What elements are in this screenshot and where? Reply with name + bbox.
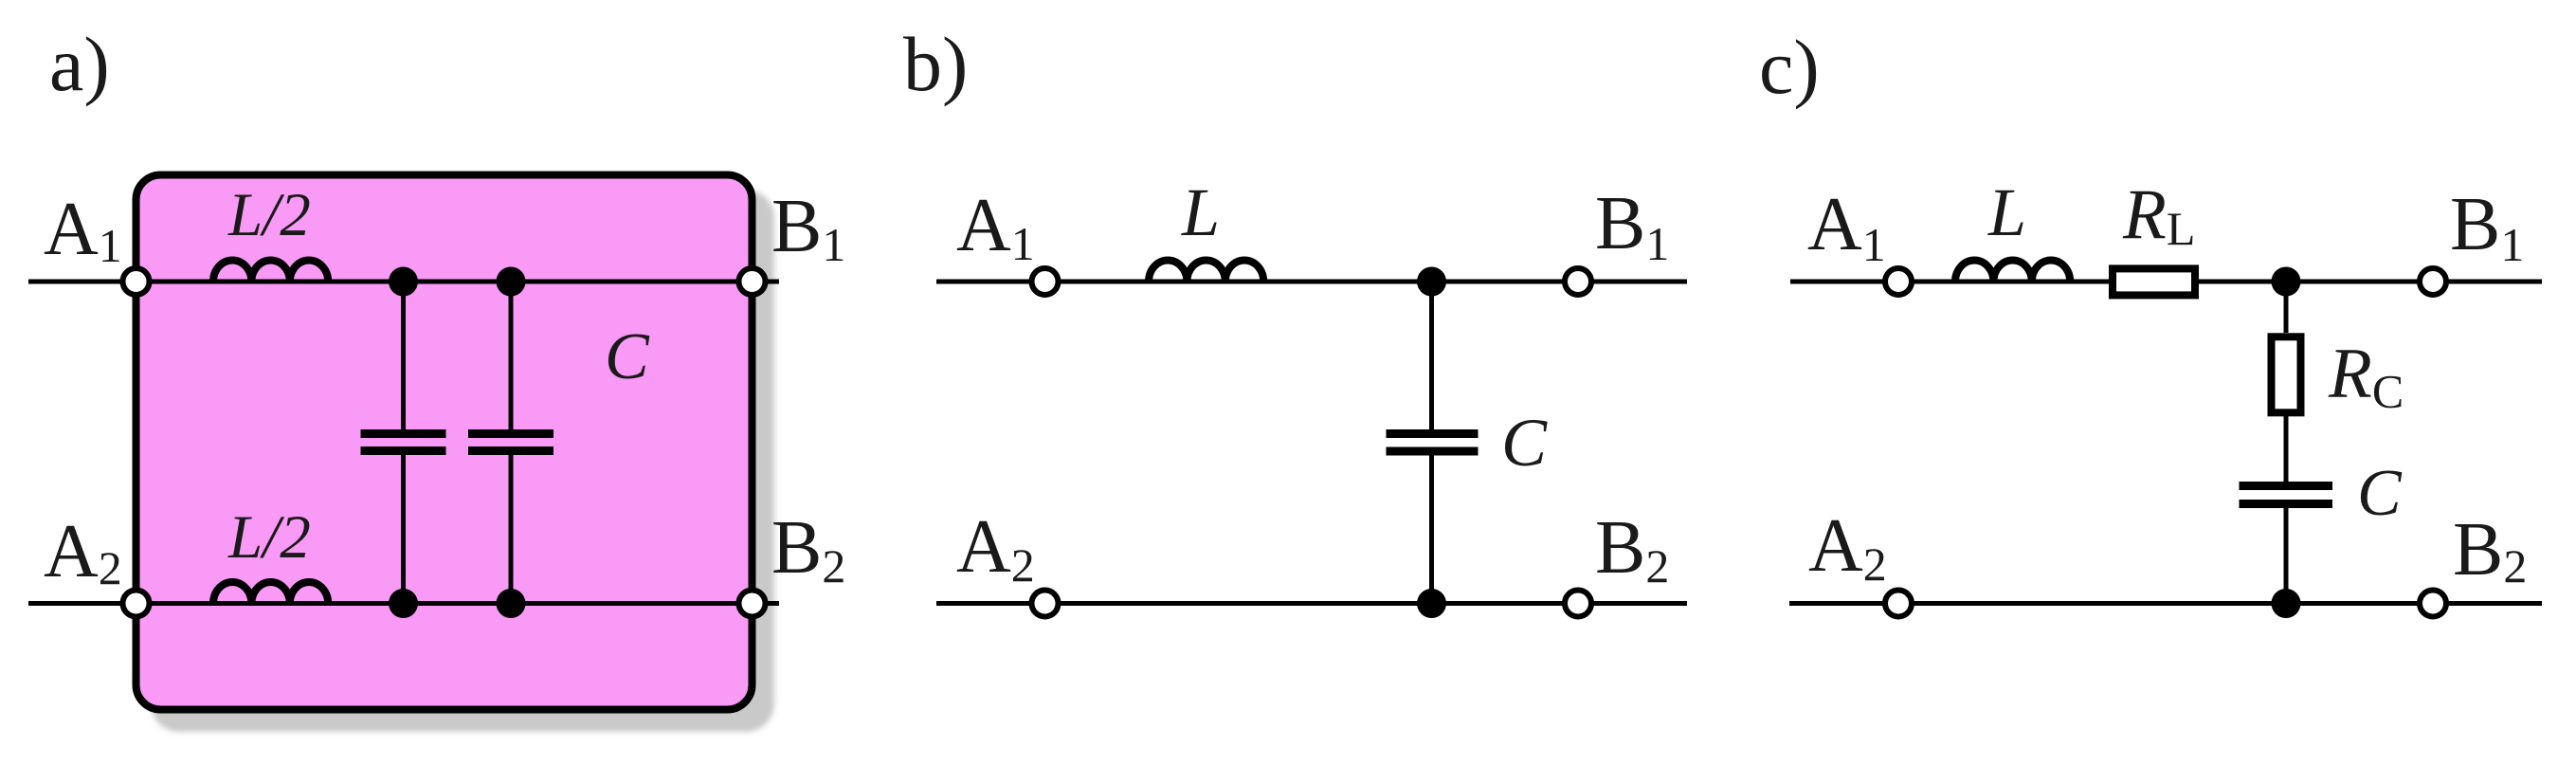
svg-text:C: C bbox=[605, 320, 650, 393]
svg-text:B2: B2 bbox=[2453, 508, 2527, 592]
svg-text:RL: RL bbox=[2122, 175, 2195, 255]
svg-text:B2: B2 bbox=[1595, 506, 1669, 592]
inductor L bbox=[1149, 261, 1263, 282]
resistor RC bbox=[2272, 337, 2301, 412]
svg-text:c): c) bbox=[1759, 24, 1820, 110]
svg-text:RC: RC bbox=[2328, 335, 2404, 418]
svg-text:A2: A2 bbox=[44, 510, 122, 594]
wire RC-C vertical branch bbox=[2284, 282, 2289, 604]
svg-text:B1: B1 bbox=[1595, 182, 1669, 270]
wire bottom (A2 to B2) bbox=[936, 601, 1687, 606]
junction bottom bbox=[2272, 589, 2301, 618]
svg-text:B1: B1 bbox=[771, 185, 845, 271]
two-port network box (pink) bbox=[136, 175, 753, 710]
inductor L/2 top bbox=[213, 261, 328, 282]
wire capacitor 1 vertical bbox=[401, 282, 406, 604]
terminal A2 bbox=[1885, 591, 1912, 617]
capacitor C2 plates bbox=[468, 434, 553, 451]
inductor L bbox=[1955, 261, 2070, 282]
wire top (A1 to B1) bbox=[1790, 280, 2542, 284]
terminal A2 bbox=[123, 591, 150, 617]
terminal B1 bbox=[1565, 268, 1591, 295]
svg-text:L/2: L/2 bbox=[227, 503, 311, 572]
wire capacitor vertical bbox=[1429, 282, 1434, 604]
capacitor C plates bbox=[1387, 434, 1478, 452]
svg-text:C: C bbox=[2357, 457, 2403, 530]
capacitor C plates bbox=[2240, 486, 2333, 504]
terminal A1 bbox=[1885, 268, 1912, 295]
wire top (A1 to B1) bbox=[936, 280, 1687, 284]
svg-text:b): b) bbox=[903, 21, 968, 107]
svg-text:B1: B1 bbox=[2450, 183, 2524, 271]
svg-text:L/2: L/2 bbox=[227, 181, 311, 249]
svg-text:L: L bbox=[1181, 174, 1220, 250]
wire top (A1 to B1) bbox=[28, 280, 779, 284]
svg-text:L: L bbox=[1987, 174, 2026, 250]
svg-text:B2: B2 bbox=[771, 506, 845, 592]
wire bottom (A2 to B2) bbox=[28, 601, 779, 606]
wire bottom (A2 to B2) bbox=[1789, 601, 2542, 606]
terminal A2 bbox=[1032, 591, 1059, 617]
svg-text:a): a) bbox=[49, 21, 110, 107]
shadow of two-port box bbox=[151, 190, 774, 732]
capacitor C1 plates bbox=[361, 434, 446, 451]
resistor RL bbox=[2113, 268, 2195, 295]
junction bottom-left bbox=[389, 589, 418, 618]
terminal A1 bbox=[123, 268, 150, 295]
svg-text:A1: A1 bbox=[956, 184, 1035, 270]
svg-text:A2: A2 bbox=[1808, 504, 1887, 591]
junction top bbox=[1417, 267, 1446, 297]
svg-text:C: C bbox=[1501, 405, 1548, 481]
junction top-right bbox=[497, 267, 526, 297]
junction bottom-right bbox=[497, 589, 526, 618]
terminal B2 bbox=[2420, 591, 2446, 617]
terminal B2 bbox=[739, 591, 766, 617]
junction bottom bbox=[1417, 589, 1446, 618]
svg-text:A1: A1 bbox=[44, 188, 122, 272]
junction top bbox=[2272, 267, 2301, 297]
svg-text:A2: A2 bbox=[956, 505, 1035, 592]
terminal B2 bbox=[1565, 591, 1591, 617]
wire capacitor 2 vertical bbox=[509, 282, 514, 604]
terminal A1 bbox=[1032, 268, 1059, 295]
svg-text:A1: A1 bbox=[1807, 183, 1886, 271]
terminal B1 bbox=[2420, 268, 2446, 295]
inductor L/2 bottom bbox=[213, 582, 328, 604]
junction top-left bbox=[389, 267, 418, 297]
terminal B1 bbox=[739, 268, 766, 295]
